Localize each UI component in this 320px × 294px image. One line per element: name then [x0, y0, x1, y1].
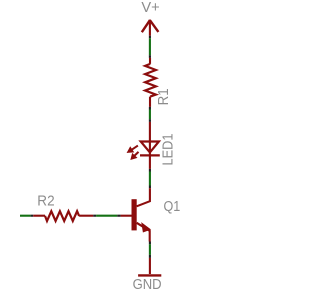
power symbol V+ arrow [142, 20, 159, 36]
wire W6 (emitter to GND) [149, 242, 151, 258]
svg-text:LED1: LED1 [161, 134, 177, 166]
LED light arrow (lightning bolt) [127, 146, 138, 160]
wire W3 (LED1 to collector) [149, 169, 151, 188]
cathode bar [140, 154, 160, 156]
cathode pin [149, 155, 151, 169]
base bar [132, 199, 137, 230]
svg-text:R1: R1 [156, 88, 172, 105]
wire W4 (left stub to R2) [20, 215, 33, 217]
circuit schematic: V+ -> R1 -> LED1 -> Q1(NPN) -> GND, base via R2 [0, 0, 198, 294]
anode pin through triangle [149, 122, 151, 155]
wire W2 (R1 to LED1) [149, 107, 151, 122]
ground symbol [138, 258, 161, 276]
emitter arrowhead [142, 223, 150, 232]
svg-text:R2: R2 [37, 194, 54, 210]
emitter lead [137, 223, 150, 242]
resistor R2 (horizontal) [33, 211, 93, 221]
wire W5 (R2 to base) [93, 215, 131, 217]
svg-text:GND: GND [133, 277, 162, 293]
transistor Q1 (NPN) [132, 188, 151, 241]
svg-text:Q1: Q1 [164, 199, 181, 215]
LED LED1 [140, 122, 160, 169]
svg-text:V+: V+ [141, 0, 159, 16]
wire W1 (V+ to R1) [149, 36, 151, 58]
collector lead [137, 188, 150, 206]
resistor R1 (vertical) [145, 58, 156, 107]
diode triangle [141, 142, 159, 153]
